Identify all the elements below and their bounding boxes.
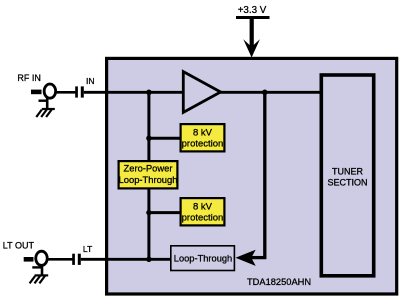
svg-text:protection: protection (182, 138, 224, 149)
junction dot amp output / feedback wire (262, 90, 268, 96)
wire LT OUT to coupling capacitor (47, 258, 73, 261)
TUNER SECTION box (321, 75, 373, 276)
LT OUT ground stem (41, 264, 44, 275)
Zero-Power Loop-Through box (119, 161, 178, 188)
svg-text:Zero-Power: Zero-Power (124, 163, 173, 174)
svg-text:Loop-Through: Loop-Through (119, 174, 178, 185)
svg-text:TUNER: TUNER (332, 167, 363, 177)
wire capacitor to amplifier input (84, 91, 184, 94)
RF IN chassis ground (36, 109, 55, 117)
vertical loop-through bus wire (147, 92, 150, 259)
arrowhead into Loop-Through box (236, 250, 256, 266)
RF IN connector circle (44, 84, 56, 98)
svg-text:IN: IN (86, 76, 95, 86)
main IC block (TDA18250AHN) (107, 58, 397, 294)
svg-text:8 kV: 8 kV (193, 201, 213, 212)
wire stub to lower 8 kV protection box (149, 211, 181, 214)
svg-text:8 kV: 8 kV (193, 127, 213, 138)
upper 8 kV protection box (181, 124, 225, 151)
svg-text:+3.3 V: +3.3 V (238, 5, 267, 16)
svg-text:TDA18250AHN: TDA18250AHN (247, 277, 311, 287)
svg-text:protection: protection (182, 212, 224, 223)
svg-text:SECTION: SECTION (327, 177, 367, 187)
wire RF IN to coupling capacitor (56, 91, 76, 94)
wire amplifier output to tuner section (219, 91, 322, 94)
coupling capacitor at LT (72, 254, 75, 265)
junction dot at IN wire / loop-through bus (146, 90, 152, 96)
feedback wire horizontal into arrowhead (251, 256, 267, 259)
+3.3 V supply bar (236, 16, 270, 19)
RF IN ground stem (46, 97, 49, 109)
svg-text:LT: LT (83, 244, 93, 254)
junction dot at LT wire / loop-through bus (146, 257, 151, 262)
+3.3 V supply arrowhead (243, 39, 260, 57)
svg-text:Loop-Through: Loop-Through (174, 254, 232, 264)
coupling capacitor at IN (75, 86, 78, 97)
wire capacitor to Loop-Through box (81, 258, 171, 261)
svg-text:LT OUT: LT OUT (3, 241, 35, 251)
RF IN connector tab (39, 99, 48, 101)
wire stub to upper 8 kV protection box (149, 137, 181, 140)
+3.3 V supply stem (250, 18, 254, 50)
LT OUT connector tab (32, 266, 42, 268)
amplifier (183, 72, 220, 113)
Loop-Through box (171, 246, 235, 271)
LT OUT chassis ground (30, 275, 49, 283)
LT OUT coax plug (24, 257, 34, 262)
lower 8 kV protection box (181, 198, 225, 225)
feedback wire vertical from amplifier output (263, 92, 266, 257)
LT OUT connector circle (36, 251, 48, 265)
RF IN coax plug (31, 90, 42, 95)
svg-text:RF IN: RF IN (17, 73, 41, 83)
